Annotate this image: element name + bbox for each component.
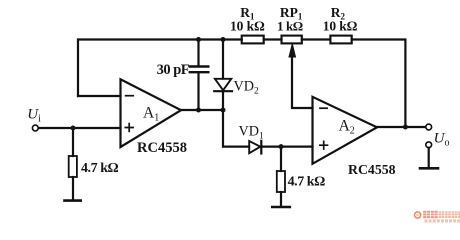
node: VD1 / resistor junction — [279, 144, 284, 149]
svg-text:A2: A2 — [339, 118, 355, 137]
op-amp A1 plus sign — [125, 124, 133, 132]
svg-text:RC4558: RC4558 — [348, 162, 396, 177]
terminal output return — [426, 142, 432, 148]
wire: resistor to ground — [280, 192, 282, 207]
capacitor 30pF — [190, 67, 209, 73]
node: capacitor bottom junction — [196, 108, 201, 113]
svg-text:RC4558: RC4558 — [137, 140, 187, 156]
wire: junction down to input resistor — [72, 128, 74, 156]
ground (A2 input side) — [272, 206, 290, 209]
svg-text:Uo: Uo — [434, 130, 450, 148]
wire: feedback from A1 inverting input up and along top rail to R1 — [78, 40, 242, 97]
wire: capacitor top leg — [197, 40, 199, 66]
resistor 4.7k input — [69, 156, 77, 177]
wire: junction down to resistor — [280, 147, 282, 171]
svg-text:30 pF: 30 pF — [157, 62, 190, 78]
node: VD2 top junction — [221, 37, 226, 42]
svg-text:Ui: Ui — [27, 107, 41, 125]
wire: feedback node to A1 inverting input — [78, 95, 121, 97]
wire: RP1 to R2 — [302, 38, 331, 40]
potentiometer RP1 — [282, 36, 302, 44]
wire: capacitor bottom leg — [197, 74, 199, 111]
ground (output side) — [420, 167, 438, 170]
watermark text stroke gaps — [423, 211, 460, 218]
diode VD2 — [214, 79, 232, 91]
wire: A1 output to VD2 branch — [181, 109, 223, 111]
op-amp A2 plus sign — [320, 141, 328, 149]
wire: resistor to ground — [72, 177, 74, 200]
svg-text:A1: A1 — [143, 105, 159, 124]
diode VD1 — [249, 141, 261, 154]
node: VD2 bottom junction — [221, 108, 226, 113]
svg-text:10 kΩ: 10 kΩ — [323, 19, 358, 34]
potentiometer RP1 wiper arrow — [289, 44, 296, 57]
watermark small text row — [425, 219, 460, 222]
op-amp U2 (A2) — [313, 97, 378, 164]
terminal Uo — [426, 124, 432, 130]
svg-text:4.7 kΩ: 4.7 kΩ — [288, 174, 326, 189]
node: output junction — [403, 125, 408, 130]
ground (input side) — [65, 199, 81, 202]
wire: input terminal to A1 non-inverting input — [38, 127, 120, 129]
resistor R1 — [242, 36, 264, 44]
resistor 4.7k (A2 input) — [277, 171, 285, 192]
watermark logo circle — [415, 212, 421, 218]
op-amp A1 minus sign — [126, 95, 134, 97]
wire: RP1 wiper down to A2 inverting input — [292, 55, 313, 108]
node: input junction — [71, 126, 76, 131]
wire: VD2 top leg — [222, 40, 224, 79]
watermark bold text blocks — [423, 211, 437, 218]
svg-text:4.7 kΩ: 4.7 kΩ — [81, 161, 119, 176]
op-amp A2 minus sign — [320, 107, 327, 109]
wire: return terminal to ground — [428, 148, 430, 167]
svg-text:VD2: VD2 — [234, 79, 260, 97]
wire: A2 output to terminal — [377, 126, 426, 128]
svg-text:10 kΩ: 10 kΩ — [230, 19, 265, 34]
wire: R2 right, corner down to A2 output node — [352, 40, 406, 128]
svg-text:VD1: VD1 — [239, 124, 265, 142]
resistor R2 — [330, 36, 351, 44]
wire: VD2 down and right to VD1 — [223, 91, 249, 146]
op-amp U1 (A1) — [121, 79, 182, 147]
wire: R1 to RP1 — [264, 38, 282, 40]
terminal Ui — [32, 125, 38, 131]
node: capacitor top junction — [196, 37, 201, 42]
svg-text:1 kΩ: 1 kΩ — [277, 19, 303, 34]
wire: VD1 to A2 non-inverting input — [261, 146, 312, 148]
